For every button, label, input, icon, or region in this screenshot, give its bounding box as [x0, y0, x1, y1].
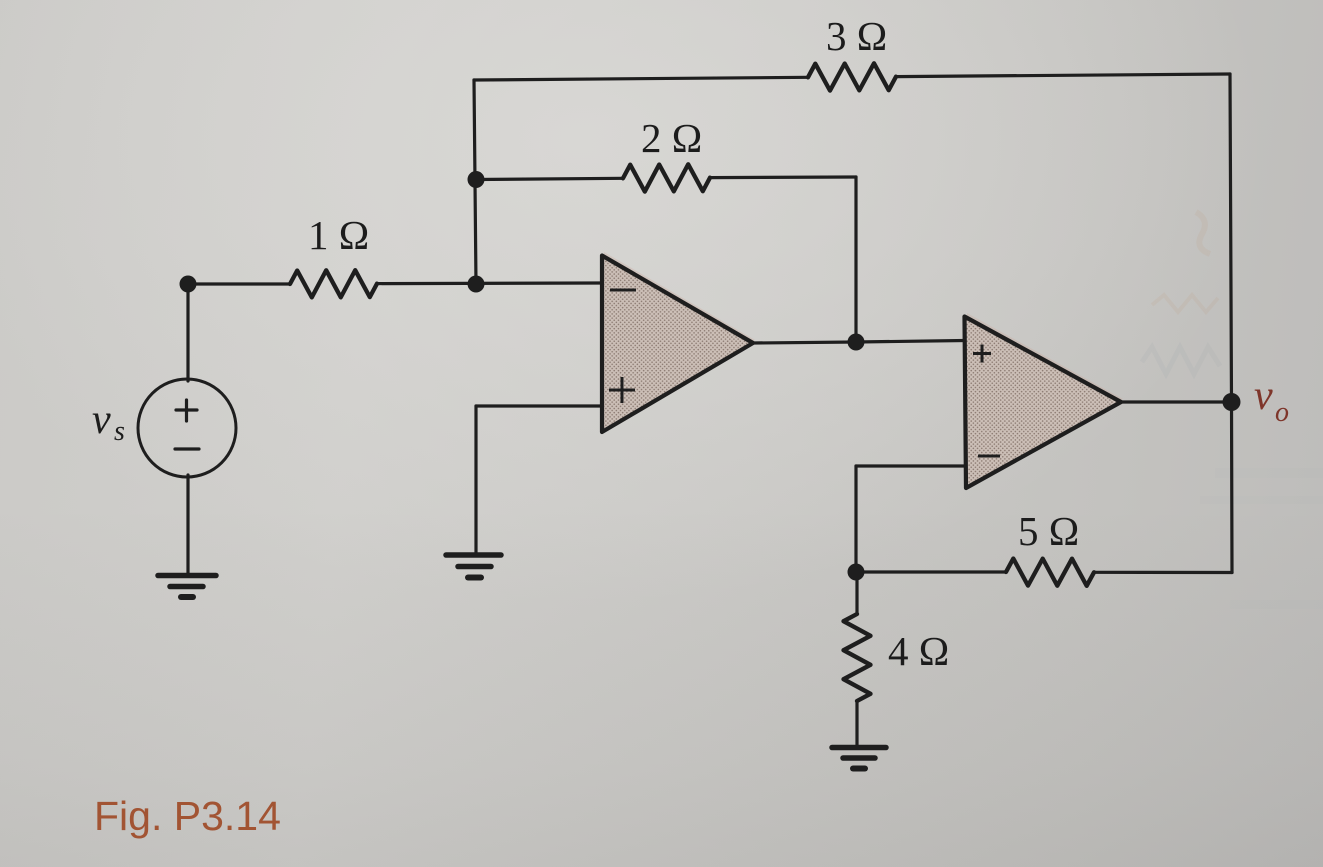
vs plus sign — [175, 400, 199, 449]
wire: op-amp U1 non-inverting input — [476, 404, 602, 407]
wire: 2-ohm branch right segment — [710, 175, 856, 179]
node dot: U1 output junction — [848, 334, 865, 351]
node dot: output vo junction — [1223, 393, 1241, 411]
svg-text:3 Ω: 3 Ω — [826, 13, 887, 59]
ghost show-through: faint orange marks upper right — [1152, 212, 1218, 312]
op-amp U1 body — [602, 256, 753, 433]
resistor R 2-ohm zigzag — [623, 164, 710, 191]
ground under 4-ohm — [832, 748, 886, 769]
U2 plus label — [973, 345, 991, 363]
op-amp U1 misregistration halo — [604, 252, 755, 429]
U1 minus label — [610, 289, 636, 292]
op-amp U2 misregistration halo — [967, 313, 1123, 485]
node dot: 2-ohm left junction — [468, 171, 485, 188]
U1 plus label — [609, 377, 635, 403]
resistor R 1-ohm zigzag — [290, 270, 377, 297]
svg-text:v: v — [92, 397, 111, 443]
wire: 5-ohm branch left segment — [856, 570, 1006, 573]
wire: source top lead — [186, 284, 189, 381]
wire: right rail vertical — [1230, 74, 1232, 573]
wire: U2 inverting vertical down to 5-ohm node — [854, 466, 857, 572]
svg-text:v: v — [1254, 373, 1273, 419]
wire: 1-ohm to inverting input of op-amp U1 — [377, 281, 602, 285]
wire: U2 output to output node — [1122, 400, 1232, 403]
node dot: 5-ohm / 4-ohm junction — [848, 564, 865, 581]
ghost show-through: faint resistor zigzag right side — [1142, 347, 1220, 374]
wire: 2-ohm right vertical down to op-amp1 output node — [854, 177, 857, 342]
op-amp U2 body — [965, 317, 1122, 489]
resistor R 5-ohm zigzag — [1006, 559, 1094, 586]
wire: node to 4-ohm resistor — [855, 572, 858, 614]
wire: U2 inverting input horizontal — [856, 464, 965, 467]
voltage source vs circle — [138, 379, 236, 477]
resistor R 4-ohm zigzag (vertical) — [844, 614, 871, 701]
ground under source — [158, 576, 216, 598]
wire: 3-ohm top branch left segment — [474, 77, 808, 80]
svg-text:4 Ω: 4 Ω — [888, 628, 949, 674]
U2 minus label — [978, 455, 1000, 458]
wire: source node to 1-ohm resistor — [188, 282, 290, 285]
wire: 3-ohm top branch right segment — [896, 74, 1230, 77]
svg-text:Fig. P3.14: Fig. P3.14 — [94, 793, 281, 839]
svg-text:s: s — [114, 416, 125, 447]
node dot: inverting input junction — [468, 276, 485, 293]
wire: source bottom lead to ground — [186, 475, 189, 575]
svg-text:o: o — [1275, 397, 1289, 428]
svg-text:2 Ω: 2 Ω — [641, 115, 702, 161]
wire: 5-ohm branch right segment — [1094, 571, 1232, 574]
wire: U1 plus-input vertical to ground — [474, 406, 477, 553]
wire: 2-ohm branch left segment — [476, 178, 623, 179]
wire: U1 output to node and U2 plus input — [753, 341, 965, 344]
svg-text:1 Ω: 1 Ω — [308, 212, 369, 258]
node dot: source / 1-ohm junction — [180, 276, 197, 293]
resistor R 3-ohm zigzag — [808, 63, 896, 90]
wire: left feedback vertical (474) — [474, 80, 476, 284]
svg-text:5 Ω: 5 Ω — [1018, 508, 1079, 554]
ghost show-through: faint streaks lower right — [1200, 468, 1323, 609]
ground under U1 plus input — [446, 555, 501, 578]
vs minus sign — [175, 447, 199, 450]
wire: 4-ohm bottom lead to ground — [855, 701, 858, 746]
